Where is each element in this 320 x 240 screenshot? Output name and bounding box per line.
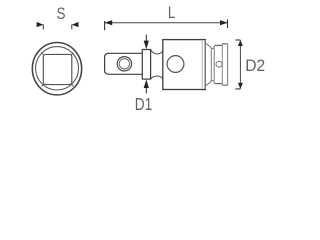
- corner chamfer top-left: [42, 53, 45, 56]
- body pin hole circle: [167, 56, 184, 73]
- ball detent inner circle: [119, 59, 129, 69]
- neck bottom edge: [151, 76, 163, 79]
- L left extension tick: [104, 21, 106, 30]
- end face: [227, 44, 229, 85]
- groove wall right: [213, 48, 215, 80]
- corner chamfer bottom-right: [71, 84, 74, 87]
- D2 top arrowhead: [238, 40, 243, 46]
- L right arrowhead: [220, 20, 228, 25]
- S dim right arrow: [72, 22, 79, 27]
- D2 bottom arrowhead: [238, 83, 243, 89]
- L right extension tick: [227, 19, 229, 28]
- neck top edge: [151, 50, 163, 54]
- square tang: [105, 53, 143, 74]
- S dim left arrow: [37, 22, 44, 27]
- S dim right tick: [71, 24, 73, 29]
- socket inner circle: [36, 47, 79, 90]
- svg-text:D2: D2: [245, 56, 265, 75]
- L dimension line: [105, 22, 228, 24]
- chamfer bottom: [205, 82, 210, 86]
- D2 top elbow tick: [235, 39, 240, 41]
- body end inner edge line: [201, 40, 203, 89]
- groove dip top: [210, 46, 215, 49]
- D2 dimension line: [239, 40, 241, 88]
- groove wall left: [210, 48, 212, 80]
- socket body: [163, 40, 206, 90]
- svg-text:S: S: [57, 5, 66, 24]
- chamfer top: [205, 43, 210, 47]
- end ring top edge: [222, 43, 227, 45]
- corner chamfer top-right: [71, 53, 74, 56]
- end ring step line: [221, 44, 223, 85]
- groove dip bottom: [210, 81, 215, 84]
- svg-text:L: L: [168, 4, 175, 23]
- collar: [142, 50, 150, 80]
- nose bottom edge: [215, 83, 223, 85]
- svg-text:D1: D1: [135, 96, 152, 111]
- S dim left tick: [42, 24, 44, 29]
- D1 bottom leader stub: [145, 88, 147, 94]
- end ring bottom edge: [222, 84, 227, 86]
- square drive hole: [43, 54, 72, 84]
- socket outer circle: [32, 42, 81, 94]
- D1 bottom arrowhead: [144, 79, 149, 88]
- L left arrowhead: [105, 20, 113, 25]
- D1 top arrowhead: [144, 41, 149, 50]
- corner chamfer bottom-left: [42, 84, 45, 87]
- pin hole circle: [216, 61, 222, 67]
- nose top edge: [215, 44, 223, 46]
- step line at body end: [204, 40, 206, 89]
- D2 bottom elbow tick: [235, 88, 240, 90]
- ball detent outer circle: [117, 57, 131, 71]
- D1 top leader stub: [145, 35, 147, 42]
